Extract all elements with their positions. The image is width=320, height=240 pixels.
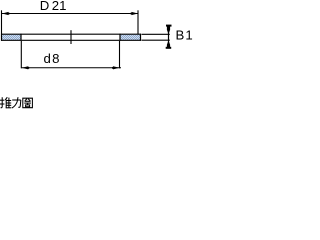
B dimension line vertical — [168, 26, 170, 49]
d dimension right arrowhead — [112, 66, 119, 69]
char tui (push) — [0, 97, 11, 108]
d dimension extension line right — [119, 41, 121, 68]
washer left end border — [1, 34, 3, 41]
bore left border — [20, 34, 22, 41]
washer outline bottom edge — [1, 39, 141, 41]
B dimension extension line bottom — [142, 39, 170, 41]
D dimension line — [2, 13, 138, 15]
washer outline top edge — [1, 33, 141, 35]
svg-text:B1: B1 — [176, 28, 193, 43]
B dimension down arrowhead — [167, 26, 170, 34]
washer right end border — [140, 34, 142, 41]
B dimension extension line top — [142, 33, 170, 35]
svg-text:d8: d8 — [44, 51, 60, 66]
D dimension right arrowhead — [131, 12, 138, 15]
B dimension bottom serif bar — [166, 47, 172, 49]
d value label — [44, 51, 60, 66]
d dimension left arrowhead — [22, 66, 29, 69]
D dimension left arrowhead — [2, 12, 9, 15]
svg-text:D21: D21 — [40, 0, 67, 13]
char li (force) — [12, 97, 21, 108]
centerline — [70, 30, 72, 44]
caption thrust washer (Chinese glyphs drawn as paths) — [0, 97, 32, 108]
d dimension extension line left — [20, 41, 22, 68]
d dimension line — [21, 67, 121, 69]
D dimension extension line left — [1, 10, 3, 34]
bore right border — [119, 34, 121, 41]
B dimension up arrowhead — [167, 40, 170, 48]
D value label — [40, 0, 67, 13]
char quan (ring) — [23, 98, 33, 108]
B dimension top serif bar — [166, 25, 172, 27]
D dimension extension line right — [137, 10, 139, 34]
washer cross-section right segment fill — [120, 34, 141, 40]
B value label — [176, 28, 193, 43]
washer cross-section left segment fill — [1, 34, 21, 40]
